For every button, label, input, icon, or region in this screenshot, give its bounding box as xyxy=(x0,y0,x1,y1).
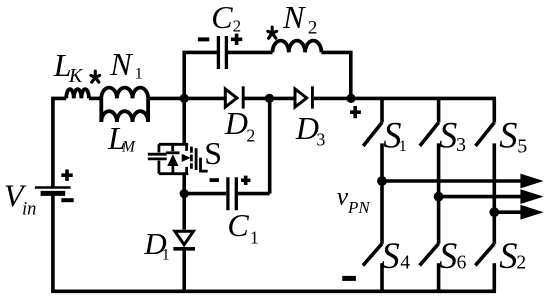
svg-text:6: 6 xyxy=(457,253,467,274)
svg-text:v: v xyxy=(337,182,349,211)
svg-text:PN: PN xyxy=(347,198,371,217)
svg-text:2: 2 xyxy=(233,17,242,36)
svg-text:5: 5 xyxy=(517,136,527,158)
svg-text:1: 1 xyxy=(399,138,407,155)
svg-text:1: 1 xyxy=(135,65,143,82)
svg-text:2: 2 xyxy=(516,253,526,274)
svg-text:S: S xyxy=(499,235,517,276)
svg-text:4: 4 xyxy=(400,253,410,274)
svg-text:3: 3 xyxy=(456,134,466,156)
svg-text:S: S xyxy=(204,135,222,171)
svg-text:2: 2 xyxy=(246,126,255,146)
svg-text:S: S xyxy=(439,235,457,276)
svg-text:D: D xyxy=(295,110,319,146)
svg-text:1: 1 xyxy=(162,247,170,264)
svg-text:K: K xyxy=(68,65,84,87)
svg-text:1: 1 xyxy=(250,228,259,248)
svg-text:D: D xyxy=(224,105,248,141)
svg-text:S: S xyxy=(381,235,399,276)
svg-text:in: in xyxy=(22,200,36,220)
svg-text:S: S xyxy=(499,114,517,155)
svg-text:C: C xyxy=(227,207,249,243)
svg-text:C: C xyxy=(211,0,233,35)
svg-text:N: N xyxy=(282,0,306,35)
svg-text:2: 2 xyxy=(308,17,318,38)
svg-text:3: 3 xyxy=(316,129,325,149)
svg-text:S: S xyxy=(439,114,457,155)
svg-text:M: M xyxy=(121,139,136,156)
svg-text:N: N xyxy=(109,46,133,82)
